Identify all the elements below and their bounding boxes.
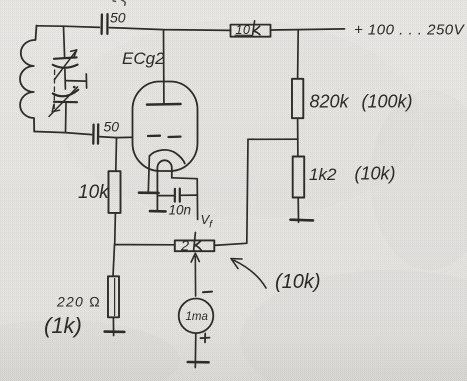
wire R820k to R1k2 with node B [297,118,299,156]
wire node B to feedback drop [248,138,298,140]
wire grid-leak drop to R 10k [115,138,118,171]
svg-text:2: 2 [180,239,189,255]
ground (R1k2) [291,218,314,221]
ground (R220) [105,330,125,333]
rotor tap with end bar [65,74,86,88]
wire supply junction down to R 820k [297,30,300,79]
wiper arrow of pot [191,253,199,296]
cathode lead [148,156,149,193]
svg-text:+ 100 . . . 250V: + 100 . . . 250V [354,22,466,39]
wire C3 right lead [181,194,197,196]
wire tank bottom rail [35,132,93,135]
svg-text:(1k): (1k) [44,313,82,338]
tube V1 envelope [133,82,198,172]
resistor R 10k (grid leak) [109,171,121,213]
resistor R 1k2 [293,157,305,198]
wire heater to Vf line [172,178,198,220]
doubled inner stroke of resistor box [114,279,116,316]
heater loop [157,160,171,210]
resistor R 820k [292,79,303,118]
wire var-cap mid section [64,70,67,90]
svg-text:220 Ω: 220 Ω [56,294,101,310]
wire C3 left lead [157,195,173,197]
wire var-cap branch top [64,26,65,57]
wire feedback vertical drop [247,139,248,243]
resistor R 10k (anode, boxed value) [231,25,271,37]
wire R220 to ground [112,317,114,335]
annotation arrow to pot [231,259,266,288]
svg-text:(10k): (10k) [275,271,321,293]
wire C1 to anode junction to R 10k [109,28,230,31]
capacitor C2 50pF (grid coupling) [93,124,98,143]
grid (dashed) [148,136,181,137]
ground (meter) [188,361,209,364]
svg-text:ECg2: ECg2 [122,49,165,68]
plus polarity mark [201,333,210,342]
resistor R 220 (cathode) [108,276,119,317]
wire node A down to R 220 [113,245,115,277]
variable capacitor VC2 (bottom section) [49,87,78,117]
wire pot to feedback drop [214,243,246,245]
potentiometer R 2k [175,240,215,251]
wire meter to ground [194,333,197,367]
wire tank top rail [37,26,100,28]
wire node A to pot 2k [115,244,175,246]
svg-text:(100k): (100k) [362,92,413,112]
svg-text:50: 50 [104,119,120,135]
stray pen mark top edge [113,0,125,5]
wire C2 to grid [99,137,133,138]
ink dot [73,86,76,89]
meter M 1mA [179,299,214,334]
svg-text:10k: 10k [78,182,110,203]
ground (cathode) [139,191,159,194]
svg-text:1k2: 1k2 [309,165,337,184]
minus polarity mark [203,291,212,294]
anode lead of tube [163,30,165,104]
wire R1k2 to ground [297,198,299,223]
svg-text:50: 50 [110,10,126,26]
wire R10k to supply [271,29,345,30]
svg-text:(10k): (10k) [355,164,396,184]
cathode [150,150,185,164]
capacitor C1 50pF (top coupling) [102,14,108,34]
wire var-cap branch bottom [65,104,68,133]
svg-text:820k: 820k [310,92,350,112]
variable capacitor VC1 (top section) [53,50,78,80]
capacitor C3 10n (heater bypass) [175,189,180,202]
wire R10k bottom to node A [114,213,117,245]
gang dashed line [53,70,55,110]
svg-text:10n: 10n [169,203,192,218]
ground (heater) [150,210,166,213]
inductor L (tank coil) [20,26,37,132]
svg-text:1ma: 1ma [186,311,208,323]
anode plate bar [147,103,181,106]
